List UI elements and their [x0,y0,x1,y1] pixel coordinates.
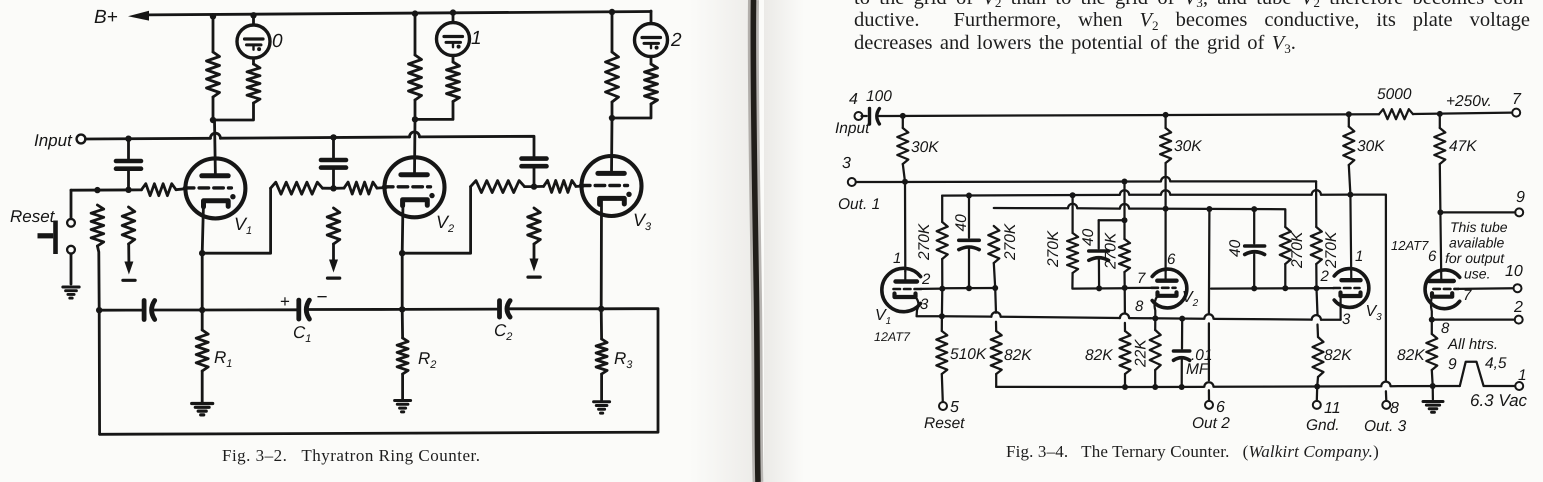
svg-text:6.3 Vac: 6.3 Vac [1470,391,1528,410]
svg-text:V1: V1 [234,214,252,237]
svg-text:Out. 3: Out. 3 [1364,418,1407,435]
svg-text:B+: B+ [94,7,118,28]
svg-text:2: 2 [921,271,931,288]
svg-text:11: 11 [1324,400,1341,417]
svg-text:All htrs.: All htrs. [1447,336,1498,353]
svg-text:C2: C2 [494,321,512,343]
svg-text:Out 2: Out 2 [1192,415,1230,432]
svg-text:5: 5 [950,399,959,416]
svg-text:V1: V1 [875,307,891,327]
svg-text:4,5: 4,5 [1485,355,1507,372]
svg-text:use.: use. [1464,266,1490,282]
svg-text:Out. 1: Out. 1 [838,196,880,213]
svg-text:Reset: Reset [924,415,965,432]
svg-text:+250v.: +250v. [1446,93,1492,110]
svg-text:R3: R3 [614,349,633,371]
svg-text:47K: 47K [1449,138,1477,155]
svg-text:R2: R2 [418,349,436,371]
svg-text:This tube: This tube [1450,219,1508,235]
svg-text:82K: 82K [1397,347,1425,364]
svg-text:270K: 270K [1323,231,1340,269]
svg-text:1: 1 [471,28,482,49]
svg-text:MF: MF [1186,361,1210,378]
svg-text:Reset: Reset [10,207,56,226]
svg-text:0: 0 [272,31,283,52]
svg-text:270K: 270K [1002,223,1019,261]
svg-text:C1: C1 [293,323,311,345]
svg-text:5000: 5000 [1377,86,1412,103]
svg-text:3: 3 [842,155,851,172]
svg-text:V3: V3 [633,210,652,233]
svg-text:1: 1 [1355,248,1363,265]
svg-text:6: 6 [1216,399,1225,416]
svg-text:12AT7: 12AT7 [1391,238,1429,253]
svg-text:30K: 30K [911,139,939,156]
svg-text:3: 3 [1342,311,1351,328]
svg-text:8: 8 [1135,298,1144,315]
svg-text:V2: V2 [1182,289,1199,309]
svg-text:40: 40 [1227,239,1244,257]
svg-text:7: 7 [1137,270,1146,287]
svg-text:for output: for output [1445,250,1505,266]
svg-text:40: 40 [953,214,970,232]
svg-text:510K: 510K [950,346,987,363]
svg-text:4: 4 [849,91,858,108]
svg-text:30K: 30K [1357,138,1385,155]
svg-text:30K: 30K [1174,138,1202,155]
svg-text:82K: 82K [1085,347,1113,364]
svg-text:3: 3 [920,296,929,313]
svg-text:9: 9 [1448,356,1457,373]
svg-text:82K: 82K [1324,347,1352,364]
svg-text:V3: V3 [1366,303,1383,323]
svg-text:R1: R1 [214,348,232,370]
svg-text:12AT7: 12AT7 [874,330,911,344]
svg-text:V2: V2 [436,212,454,235]
svg-text:7: 7 [1512,91,1522,108]
svg-text:1: 1 [893,250,901,267]
svg-text:8: 8 [1390,400,1399,417]
svg-text:Input: Input [34,131,73,150]
svg-text:22K: 22K [1133,339,1150,368]
svg-text:6: 6 [1167,251,1176,268]
svg-text:8: 8 [1441,320,1450,337]
svg-text:82K: 82K [1004,347,1032,364]
svg-text:−: − [317,287,328,308]
svg-text:2: 2 [670,30,682,51]
svg-text:1: 1 [1518,367,1527,384]
svg-text:6: 6 [1428,248,1437,265]
svg-text:2: 2 [1513,299,1523,316]
svg-text:270K: 270K [1045,230,1062,268]
svg-text:270K: 270K [1289,231,1306,269]
svg-text:+: + [280,292,290,311]
svg-text:9: 9 [1516,189,1525,206]
svg-text:10: 10 [1505,263,1523,280]
svg-text:Input: Input [835,120,870,137]
svg-text:7: 7 [1463,287,1472,304]
svg-text:Gnd.: Gnd. [1306,417,1340,434]
svg-text:270K: 270K [916,223,933,261]
svg-text:2: 2 [1320,268,1330,285]
svg-text:available: available [1449,235,1504,251]
svg-text:100: 100 [866,88,892,105]
svg-text:40: 40 [1080,228,1097,246]
